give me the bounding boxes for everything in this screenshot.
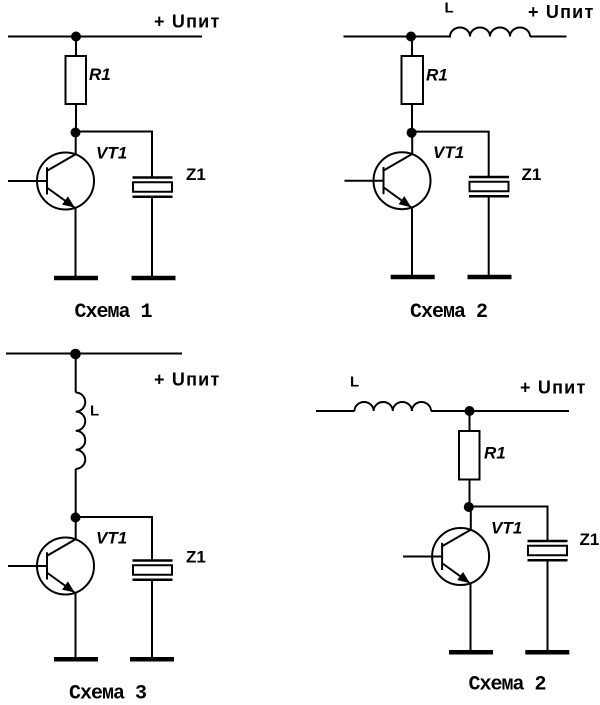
wire: collector node down to transistor (scheme 3) xyxy=(75,518,77,540)
ground under VT1 emitter (scheme 2v) xyxy=(449,651,493,653)
svg-text:L: L xyxy=(445,0,454,17)
inductor L (scheme 2v) xyxy=(355,402,432,411)
resistor R1 (scheme 1) xyxy=(66,56,87,104)
node: junction of R1 and power rail (scheme 2) xyxy=(406,32,416,42)
wire: collector node to crystal Z1 (scheme 2) xyxy=(412,132,489,178)
svg-text:L: L xyxy=(90,403,99,420)
wire: R1 bottom to collector node (scheme 2v) xyxy=(469,480,471,508)
wire: crystal Z1 to ground (scheme 3) xyxy=(151,580,153,658)
svg-text:Z1: Z1 xyxy=(186,548,206,567)
wire: emitter of VT1 to ground (scheme 2v) xyxy=(470,583,472,651)
wire: rail to R1 top (scheme 2) xyxy=(411,37,413,58)
ground under crystal Z1 (scheme 2) xyxy=(468,276,512,278)
svg-text:Z1: Z1 xyxy=(580,530,600,549)
svg-text:+ Uпит: + Uпит xyxy=(154,370,220,390)
crystal Z1 (scheme 2v) xyxy=(528,541,568,560)
svg-text:Схема 2: Схема 2 xyxy=(410,301,487,324)
svg-text:VT1: VT1 xyxy=(96,529,127,548)
ground under VT1 emitter (scheme 1) xyxy=(54,277,98,279)
wire: emitter of VT1 to ground (scheme 1) xyxy=(75,208,77,278)
resistor R1 (scheme 2) xyxy=(402,56,424,104)
crystal Z1 (scheme 3) xyxy=(133,561,173,580)
crystal Z1 (scheme 1) xyxy=(133,178,173,197)
wire: emitter of VT1 to ground (scheme 3) xyxy=(75,593,77,659)
wire: +Uпит power rail left segment (scheme 2v) xyxy=(316,410,355,412)
resistor R1 (scheme 2v) xyxy=(459,431,480,480)
svg-text:R1: R1 xyxy=(484,444,506,463)
wire: +Uпит power rail right segment (scheme 2v) xyxy=(431,410,569,412)
node: collector node joining R1, VT1, Z1 (scheme 2v) xyxy=(464,502,474,512)
ground under crystal Z1 (scheme 1) xyxy=(132,277,176,279)
svg-text:Схема 2: Схема 2 xyxy=(468,674,545,697)
svg-text:+ Uпит: + Uпит xyxy=(154,12,220,32)
node: collector node joining L, VT1, Z1 (scheme 3) xyxy=(71,513,81,523)
wire: inductor bottom to collector node (scheme 3) xyxy=(75,469,77,518)
crystal Z1 (scheme 2) xyxy=(469,177,509,196)
wire: R1 bottom to collector node (scheme 2) xyxy=(411,104,413,133)
wire: collector node to crystal Z1 (scheme 2v) xyxy=(469,507,548,542)
svg-text:VT1: VT1 xyxy=(491,519,522,538)
wire: emitter of VT1 to ground (scheme 2) xyxy=(411,207,413,276)
wire: collector node down to transistor (scheme 2) xyxy=(411,133,413,155)
node: junction of L and power rail (scheme 3) xyxy=(70,349,81,360)
node: junction of R1 and power rail (scheme 2v) xyxy=(465,406,475,416)
wire: crystal Z1 to ground (scheme 2) xyxy=(488,197,490,277)
svg-text:VT1: VT1 xyxy=(433,143,464,162)
wire: crystal Z1 to ground (scheme 2v) xyxy=(547,561,549,652)
svg-text:+ Uпит: + Uпит xyxy=(528,2,594,22)
svg-text:L: L xyxy=(350,374,359,391)
wire: rail to R1 top (scheme 1) xyxy=(75,37,77,58)
wire: collector node to crystal Z1 (scheme 1) xyxy=(76,132,153,179)
svg-text:Схема 3: Схема 3 xyxy=(69,683,146,705)
ground under crystal Z1 (scheme 2v) xyxy=(525,651,569,653)
inductor L (scheme 3) xyxy=(76,393,86,469)
wire: +Uпит power rail (scheme 3) xyxy=(6,353,182,355)
svg-text:Схема 1: Схема 1 xyxy=(74,301,152,324)
wire: +Uпит power rail (scheme 1) xyxy=(8,36,202,38)
inductor L (scheme 2) xyxy=(450,28,530,37)
ground under crystal Z1 (scheme 3) xyxy=(130,658,174,660)
transistor VT1 (scheme 3) xyxy=(8,538,94,595)
ground under VT1 emitter (scheme 3) xyxy=(54,658,98,660)
svg-text:R1: R1 xyxy=(426,66,448,85)
svg-text:Z1: Z1 xyxy=(522,165,542,184)
node: collector node joining R1, VT1, Z1 (scheme 2) xyxy=(407,128,417,138)
node: junction of R1 and power rail (scheme 1) xyxy=(71,32,81,42)
wire: rail to R1 top (scheme 2v) xyxy=(469,411,471,432)
wire: collector node down to transistor (scheme 2v) xyxy=(470,507,472,530)
wire: collector node to crystal Z1 (scheme 3) xyxy=(76,517,153,561)
svg-text:Z1: Z1 xyxy=(186,165,206,184)
wire: +Uпит power rail right segment (scheme 2) xyxy=(530,36,567,38)
wire: collector node down to transistor (scheme 1) xyxy=(75,133,77,155)
wire: rail to inductor top (scheme 3) xyxy=(75,354,77,393)
svg-text:R1: R1 xyxy=(89,65,111,84)
ground under VT1 emitter (scheme 2) xyxy=(391,276,435,278)
wire: R1 bottom to collector node (scheme 1) xyxy=(75,104,77,133)
svg-text:+ Uпит: + Uпит xyxy=(520,378,586,398)
node: collector node joining R1, VT1, Z1 (scheme 1) xyxy=(71,128,81,138)
wire: +Uпит power rail left segment (scheme 2) xyxy=(344,36,452,38)
svg-text:VT1: VT1 xyxy=(96,144,127,163)
transistor VT1 (scheme 1) xyxy=(8,153,94,210)
transistor VT1 (scheme 2) xyxy=(345,152,431,209)
transistor VT1 (scheme 2v) xyxy=(403,528,489,585)
wire: crystal Z1 to ground (scheme 1) xyxy=(151,197,153,277)
